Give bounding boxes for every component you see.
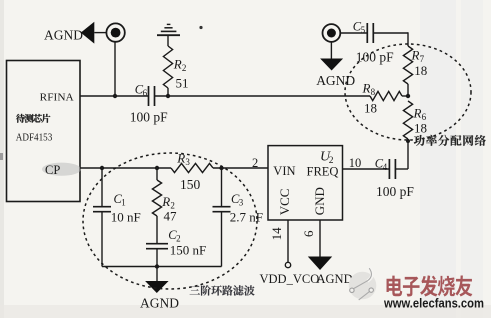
svg-text:2.7 nF: 2.7 nF xyxy=(230,209,263,224)
wire corner down to R7 xyxy=(407,32,409,46)
capacitor C4 xyxy=(388,159,390,179)
chip text 待测芯片 xyxy=(16,114,25,123)
svg-text:VDD_VCO: VDD_VCO xyxy=(260,272,320,286)
resistor R6 xyxy=(403,101,412,139)
AGND triangle (pin 6) xyxy=(308,257,332,271)
svg-text:R: R xyxy=(173,57,182,72)
resistor R7 xyxy=(403,46,412,84)
svg-text:47: 47 xyxy=(164,208,178,223)
svg-text:CP: CP xyxy=(45,163,60,177)
junction C1 top xyxy=(100,166,104,170)
wire C6 to R8 xyxy=(155,95,371,97)
wire CP to filter / VIN net xyxy=(80,167,171,169)
svg-text:100 pF: 100 pF xyxy=(376,184,414,199)
VCO U2 box xyxy=(268,146,343,220)
svg-text:www.elecfans.com: www.elecfans.com xyxy=(383,296,484,310)
svg-text:5: 5 xyxy=(361,25,366,35)
svg-text:14: 14 xyxy=(269,227,284,241)
svg-text:1: 1 xyxy=(121,197,126,207)
svg-text:18: 18 xyxy=(414,121,427,136)
svg-text:10: 10 xyxy=(349,156,362,170)
wire J2 to AGND arrow xyxy=(330,42,332,59)
capacitor C6 xyxy=(148,86,150,106)
wire R2 to RFINA net xyxy=(167,88,169,96)
wire R8 to node xyxy=(402,95,408,97)
svg-text:100 pF: 100 pF xyxy=(356,50,394,65)
svg-text:R: R xyxy=(362,81,371,96)
svg-text:10 nF: 10 nF xyxy=(111,209,141,224)
wire to AGND triangle xyxy=(156,267,158,282)
svg-text:100 pF: 100 pF xyxy=(130,109,168,124)
wire C1 branch lower xyxy=(101,212,103,267)
svg-text:8: 8 xyxy=(371,87,376,97)
junction C3 top xyxy=(219,166,223,170)
wire R1 to C2 xyxy=(156,216,158,244)
svg-text:R: R xyxy=(411,48,420,63)
dashed ellipse: power splitter network xyxy=(345,44,471,140)
svg-text:ADF4153: ADF4153 xyxy=(16,132,53,144)
svg-text:18: 18 xyxy=(414,63,427,78)
junction R7/R8/R6 xyxy=(406,94,410,98)
svg-text:150: 150 xyxy=(180,177,201,192)
pin 10 wire FREQ to C4 xyxy=(343,168,390,170)
svg-text:VIN: VIN xyxy=(273,164,295,178)
capacitor C3 xyxy=(213,206,231,208)
svg-text:RFINA: RFINA xyxy=(40,91,74,103)
label 三阶环路滤波 xyxy=(190,286,200,295)
capacitor C1 xyxy=(93,206,111,208)
wire C2 to bottom net xyxy=(156,249,158,267)
wire ground to R2 xyxy=(167,35,169,46)
AGND triangle (top-right) xyxy=(320,59,343,71)
wire R1 branch upper xyxy=(156,168,158,180)
svg-text:18: 18 xyxy=(364,101,377,116)
AGND triangle (filter) xyxy=(145,281,169,293)
capacitor C5 xyxy=(366,23,368,43)
wire R3 to VIN pin 2 xyxy=(213,167,268,169)
earth ground symbol (top) xyxy=(157,34,180,36)
wire RFINA pin to C6 xyxy=(80,95,149,97)
elecfans watermark logo disc xyxy=(349,272,377,300)
capacitor C2 xyxy=(146,243,168,245)
svg-text:3: 3 xyxy=(185,157,190,167)
svg-text:4: 4 xyxy=(383,162,388,172)
chip U1 ADF4153 (待测芯片) box xyxy=(7,61,81,202)
pin 14 wire VCC down xyxy=(287,220,289,262)
label 功率分配网络 xyxy=(414,135,425,146)
dashed ellipse: loop filter xyxy=(83,153,257,289)
junction R6 bottom xyxy=(406,139,410,143)
wire C3 branch upper xyxy=(221,168,223,207)
svg-text:AGND: AGND xyxy=(317,272,353,286)
wire J1 down to RFINA net xyxy=(114,42,116,96)
junction filter ground xyxy=(155,264,159,268)
pin 6 wire GND down xyxy=(319,220,321,257)
wire R7 to node xyxy=(407,84,409,96)
svg-text:6: 6 xyxy=(143,88,148,98)
connector J1 (coax jack, top-left) xyxy=(106,23,124,41)
svg-text:FREQ: FREQ xyxy=(307,164,339,178)
elecfans watermark text 电子发烧友 xyxy=(387,276,403,297)
wire R6 to FREQ net xyxy=(407,139,409,169)
resistor R3 xyxy=(171,163,213,172)
ink speck 2 xyxy=(427,291,433,293)
resistor R2 xyxy=(163,46,172,88)
filter bottom ground net xyxy=(102,266,222,268)
svg-text:150 nF: 150 nF xyxy=(170,242,206,257)
wire C1 branch upper xyxy=(101,168,103,207)
svg-text:6: 6 xyxy=(301,230,316,237)
svg-text:AGND: AGND xyxy=(44,27,83,42)
resistor R1 xyxy=(152,180,161,216)
wire C3 branch lower xyxy=(221,212,223,267)
resistor R8 xyxy=(370,91,402,100)
wire C4 to R6 branch xyxy=(395,168,408,170)
svg-text:AGND: AGND xyxy=(316,73,355,88)
svg-text:R: R xyxy=(413,106,422,121)
wire C5 to R7 branch corner xyxy=(373,32,408,34)
connector J2 (coax jack, top-right) xyxy=(323,24,341,42)
svg-text:2: 2 xyxy=(252,156,258,170)
wire J2 to C5 xyxy=(340,32,367,34)
svg-text:51: 51 xyxy=(176,75,189,90)
wire triangle to connector J1 xyxy=(94,32,106,34)
arrow to AGND (left-pointing triangle) xyxy=(81,22,95,44)
svg-text:3: 3 xyxy=(239,197,244,207)
VDD_VCO terminal circle xyxy=(285,262,290,267)
ink speck xyxy=(199,26,202,29)
svg-text:AGND: AGND xyxy=(140,296,179,311)
svg-text:2: 2 xyxy=(182,63,187,73)
junction on RFINA net at J1 drop xyxy=(113,94,117,98)
CP pin highlight smudge xyxy=(42,163,81,176)
junction R1 top xyxy=(155,166,159,170)
svg-text:R: R xyxy=(161,194,170,209)
svg-text:VCC: VCC xyxy=(277,189,292,216)
junction R2/RFINA net xyxy=(166,94,170,98)
svg-text:GND: GND xyxy=(312,187,327,215)
